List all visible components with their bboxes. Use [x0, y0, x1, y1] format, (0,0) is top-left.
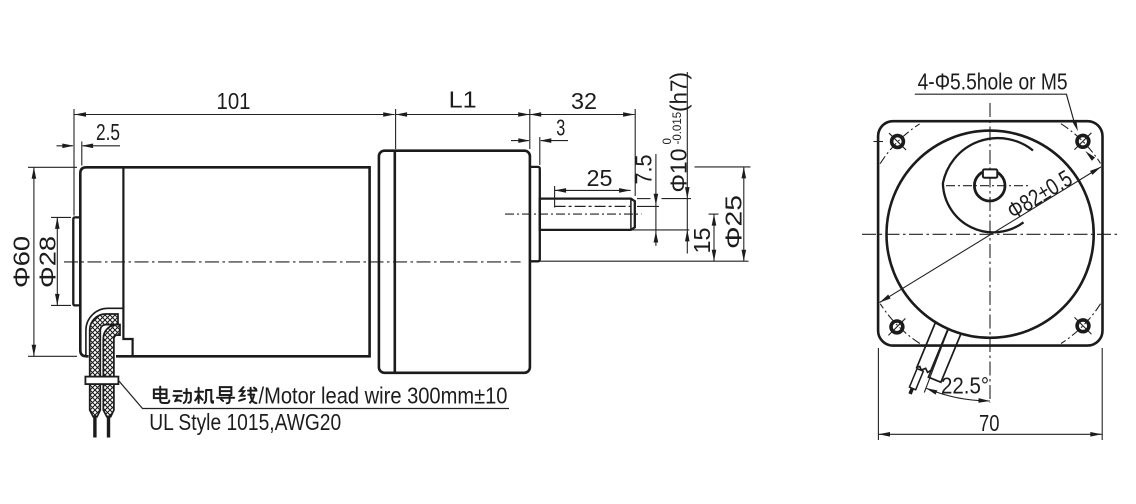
shaft D-cut flat line	[555, 205, 631, 207]
motor rear boss (28mm)	[73, 217, 80, 305]
svg-text:2.5: 2.5	[96, 119, 120, 145]
motor body	[80, 167, 369, 356]
extension lines shaft right	[637, 198, 651, 200]
gearbox front boss (25mm)	[530, 167, 540, 261]
svg-text:25: 25	[587, 165, 613, 191]
mounting hole 2 radial tick	[1074, 133, 1091, 150]
svg-text:15: 15	[689, 228, 715, 254]
dimension 32	[530, 114, 635, 116]
dimension phi10 h7	[686, 72, 688, 254]
mounting hole 2	[1077, 135, 1089, 147]
shaft horizontal centerline (front)	[946, 185, 1031, 187]
gearbox flange seam	[393, 151, 396, 373]
phi10 tolerance text	[662, 72, 692, 193]
svg-text:7.5: 7.5	[631, 155, 657, 185]
mounting hole 4 radial tick	[1074, 317, 1091, 334]
svg-text:70: 70	[979, 410, 1000, 436]
gearbox face circle	[887, 131, 1094, 338]
svg-text:/Motor lead wire 300mm±10: /Motor lead wire 300mm±10	[259, 383, 508, 409]
mounting hole 3 bolt-circle arc	[880, 304, 920, 344]
shaft tip chamfer line	[630, 199, 632, 230]
mounting hole 2 bolt-circle arc	[1061, 124, 1101, 164]
chinese label strokes	[154, 387, 169, 403]
mounting hole 4 bolt-circle arc	[1061, 304, 1101, 344]
wire passage gap in motor bottom edge	[89, 354, 117, 358]
dimension 25	[555, 189, 631, 191]
dimension 15	[709, 213, 719, 215]
dimension 2.5	[57, 145, 73, 147]
svg-text:(h7): (h7)	[666, 72, 692, 112]
front view horizontal centerline	[862, 233, 1118, 235]
bolt circle arrow at hole	[1085, 151, 1095, 161]
svg-text:101: 101	[217, 88, 251, 114]
mounting hole 3	[891, 321, 903, 333]
gear train spiral	[943, 138, 1033, 232]
mounting hole 1 bolt-circle arc	[880, 124, 920, 164]
svg-text:Φ25: Φ25	[720, 195, 746, 249]
dimension 22.5 degrees arc	[926, 388, 990, 401]
front view vertical centerline	[989, 103, 991, 403]
dimension 101	[75, 114, 395, 116]
svg-text:UL Style 1015,AWG20: UL Style 1015,AWG20	[149, 409, 341, 435]
edge tick at hole 1	[874, 141, 884, 143]
dimension phi25	[695, 166, 751, 168]
dimension phi28	[56, 217, 58, 305]
shaft keyway slot (front)	[983, 169, 997, 177]
lead wire braid right (with bend)	[103, 325, 120, 417]
output shaft	[540, 199, 635, 230]
dimension phi60	[33, 167, 35, 356]
dimension 70	[879, 433, 1102, 435]
hole label leader	[915, 94, 1075, 124]
mounting hole 4	[1077, 320, 1089, 332]
mounting hole 3 radial tick	[888, 318, 905, 335]
bare wire tips	[93, 416, 96, 438]
svg-text:Φ28: Φ28	[35, 236, 61, 288]
wire outlet channel outline	[86, 308, 123, 356]
dimension 3	[511, 140, 529, 142]
gearbox housing	[379, 151, 530, 373]
svg-text:32: 32	[571, 88, 597, 114]
motor rear cap seam	[123, 167, 132, 355]
svg-text:-0.015: -0.015	[672, 112, 684, 145]
motor centerline	[64, 261, 521, 263]
wire clamp collar	[85, 377, 118, 385]
svg-text:Φ10: Φ10	[666, 149, 692, 193]
mounting hole 1	[892, 136, 904, 148]
output shaft circle (front)	[974, 170, 1005, 201]
svg-text:3: 3	[556, 115, 565, 141]
shaft centerline	[505, 213, 642, 215]
dimension phi82 diagonal	[880, 167, 1101, 303]
front view lead wires	[906, 323, 961, 403]
svg-text:4-Φ5.5hole or M5: 4-Φ5.5hole or M5	[918, 68, 1068, 94]
svg-text:L1: L1	[449, 87, 477, 113]
lead wire leader line	[119, 381, 510, 409]
lead wire braid left (with bend)	[90, 314, 118, 417]
wire axis line	[924, 337, 945, 393]
svg-text:22.5°: 22.5°	[941, 372, 989, 398]
svg-text:Φ60: Φ60	[9, 236, 35, 288]
dimension 7.5	[655, 154, 657, 246]
gearbox face square	[878, 121, 1102, 345]
mounting hole 1 radial tick	[889, 133, 906, 150]
dimension L1	[396, 114, 530, 116]
